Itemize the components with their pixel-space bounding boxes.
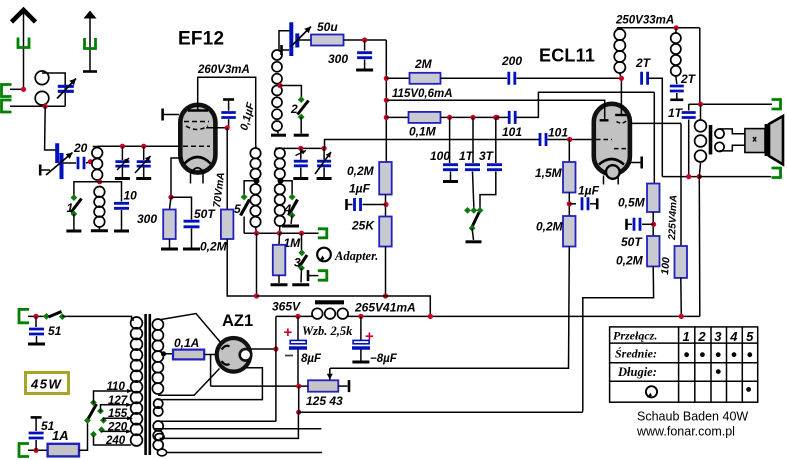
node 265V bbox=[428, 314, 433, 319]
wire T2 bottom to 365V rail bbox=[256, 233, 258, 296]
wire HV bottom to AZ1 anode 2 bbox=[158, 369, 220, 396]
wire 50u to bus bbox=[344, 39, 387, 41]
voltage selector bbox=[84, 417, 91, 424]
svg-text:10: 10 bbox=[124, 189, 138, 203]
wire label box bbox=[257, 296, 431, 316]
svg-text:101: 101 bbox=[502, 125, 522, 139]
node choke 1 bottom bbox=[619, 76, 624, 81]
svg-text:2T: 2T bbox=[635, 56, 652, 70]
trimmer capacitor T1 bbox=[121, 146, 123, 160]
wire HV top to AZ1 anode bbox=[161, 314, 221, 344]
ECL11 triode anode lead bbox=[630, 122, 681, 124]
node 300 cap bbox=[362, 37, 367, 42]
EF12 pins bbox=[190, 174, 192, 184]
trimmer capacitor antenna bbox=[58, 86, 74, 91]
EF12 grid2 dash curve bbox=[186, 126, 208, 130]
filter choke core bar bbox=[315, 300, 344, 304]
svg-text:Przełącz.: Przełącz. bbox=[613, 329, 657, 343]
svg-text:5: 5 bbox=[746, 329, 754, 344]
node bus-2M bbox=[384, 76, 389, 81]
node 25K-365V bbox=[383, 293, 388, 298]
socket (green) speaker bottom bbox=[772, 168, 781, 178]
ECL11 heater circle bbox=[606, 165, 620, 179]
socket (green) antenna A2 bbox=[85, 38, 96, 49]
EF12 grid3 dashes bbox=[184, 121, 209, 123]
svg-text:100: 100 bbox=[430, 149, 450, 163]
node 50T junction bbox=[651, 222, 656, 227]
choke L5 bbox=[617, 28, 618, 30]
svg-text:200: 200 bbox=[501, 54, 522, 68]
wire J2 to coil bottom bbox=[10, 105, 45, 107]
wire mains N bbox=[28, 449, 48, 451]
mains socket (green) N bbox=[19, 444, 29, 457]
terminal bar antenna A2 bbox=[83, 70, 97, 73]
svg-text:225V4mA: 225V4mA bbox=[667, 195, 680, 241]
node trimmer 2 bbox=[141, 144, 146, 149]
wire cap to bus bbox=[298, 386, 300, 412]
svg-text:125 43: 125 43 bbox=[306, 394, 343, 408]
svg-text:Schaub Baden 40W: Schaub Baden 40W bbox=[637, 410, 748, 424]
svg-text:1: 1 bbox=[683, 329, 690, 344]
wire 200 to choke node bbox=[517, 77, 622, 79]
ECL11 triode grid bar bbox=[600, 119, 609, 121]
electrolytic capacitor 8uF-2 bbox=[360, 316, 362, 340]
wire J1 to node bbox=[10, 88, 24, 90]
wire B+ rail bbox=[276, 315, 312, 317]
wire to fuse 0,1A bbox=[164, 353, 174, 355]
socket (green) antenna A1 bbox=[18, 38, 29, 48]
label 45W box bbox=[26, 373, 69, 394]
wire HV top lead bbox=[160, 420, 276, 422]
svg-text:Wzb. 2,5k: Wzb. 2,5k bbox=[302, 324, 353, 338]
trimmer capacitor T2a bbox=[300, 148, 302, 159]
wire 101 up and over bbox=[517, 92, 655, 117]
node rail-pot bbox=[358, 314, 363, 319]
mains socket (green) L bbox=[19, 309, 29, 322]
AZ1 filament strokes bbox=[222, 346, 230, 350]
wire AZ1 filament right bbox=[158, 368, 262, 400]
RF coil L2 lower bbox=[94, 187, 105, 198]
svg-text:Adapter.: Adapter. bbox=[334, 249, 378, 263]
svg-text:1µF: 1µF bbox=[578, 184, 600, 198]
osc coil L4 bbox=[275, 147, 278, 149]
svg-text:2M: 2M bbox=[414, 57, 433, 71]
svg-text:AZ1: AZ1 bbox=[222, 312, 253, 330]
EF12 cathode arc bbox=[185, 157, 211, 164]
svg-text:0,1A: 0,1A bbox=[174, 336, 199, 350]
wire pot left bbox=[211, 385, 308, 387]
node mains L bbox=[33, 314, 38, 319]
resistor 100 (cathode pentode) bbox=[675, 246, 688, 278]
svg-text:EF12: EF12 bbox=[178, 29, 224, 50]
wire 250V to speaker line bbox=[699, 28, 701, 104]
wire mains L bbox=[28, 315, 46, 317]
wire T2 secondary top bbox=[275, 147, 324, 149]
ECL11 cathode arc bbox=[599, 159, 624, 165]
wire 0,2M pentode to bottom rail bbox=[583, 266, 654, 411]
svg-text:20: 20 bbox=[73, 141, 88, 155]
wire screen resistor to 365V rail bbox=[227, 239, 256, 296]
AZ1 anode notch bbox=[240, 349, 252, 361]
node mains N bbox=[34, 448, 39, 453]
antenna coil L1 bbox=[42, 73, 65, 106]
wire 365V column bbox=[275, 316, 277, 421]
wire ground bus bbox=[299, 411, 583, 413]
wire node down to tuning cap bbox=[45, 106, 56, 150]
power transformer 6V winding bbox=[153, 421, 163, 431]
node L4 bottom / 1M top bbox=[279, 226, 281, 233]
power transformer HV secondary bbox=[152, 319, 163, 330]
output transformer secondary bbox=[715, 129, 724, 138]
RF coil L2 upper bbox=[93, 146, 97, 148]
rotor terminal bbox=[280, 45, 283, 55]
svg-text:−8µF: −8µF bbox=[370, 353, 398, 365]
switch tone bbox=[464, 207, 471, 214]
wire screen column down bbox=[226, 128, 228, 210]
svg-text:100: 100 bbox=[659, 257, 672, 276]
socket (green) input J1 bbox=[2, 85, 12, 97]
node 1uF-2 bbox=[568, 193, 570, 217]
node HV center tap bbox=[161, 351, 166, 356]
node L3 tap bbox=[277, 83, 282, 88]
svg-text:Średnie:: Średnie: bbox=[615, 347, 657, 361]
node bus-01M bbox=[384, 115, 389, 120]
node trimmer 1 bbox=[120, 144, 125, 149]
svg-text:2: 2 bbox=[697, 329, 706, 344]
node T2 primary bottom bbox=[256, 227, 257, 233]
node coil tap bbox=[88, 159, 93, 164]
svg-text:115V0,6mA: 115V0,6mA bbox=[392, 88, 453, 100]
osc coil L3 (top) bbox=[279, 31, 291, 50]
jack (green) adapter lower bbox=[307, 270, 310, 281]
ECL11 cathode terminal bbox=[629, 162, 642, 164]
frame terminal of tuning cap bbox=[39, 165, 42, 176]
node screen junction bbox=[225, 125, 230, 130]
svg-text:50T: 50T bbox=[194, 207, 216, 221]
IF transformer T2 primary bbox=[255, 146, 257, 149]
wire 0,2M down to AVC return bbox=[330, 247, 569, 369]
speaker voice coil leads bbox=[720, 129, 747, 134]
trimmer capacitor T2b bbox=[323, 148, 325, 159]
tube EF12 envelope bbox=[180, 105, 215, 173]
svg-text:250V33mA: 250V33mA bbox=[615, 15, 674, 27]
svg-text:2T: 2T bbox=[680, 72, 697, 86]
node EF12 cathode bbox=[168, 195, 173, 200]
EF12 top-cap terminal bbox=[161, 109, 164, 121]
EF12 grid2 lead right bbox=[206, 127, 227, 129]
speaker magnet box bbox=[745, 129, 765, 153]
node 1T bottom bbox=[686, 174, 691, 179]
wire speaker top line bbox=[689, 103, 772, 105]
variable capacitor C-tune (gang section 1) bbox=[57, 143, 61, 179]
wire L3 tap to switch 2 bbox=[280, 86, 301, 99]
power transformer 4V winding bbox=[154, 399, 163, 408]
wire EF12 anode to IF primary bbox=[198, 77, 256, 145]
node cap 3T bbox=[493, 115, 498, 120]
wire triode anode feed 0,5M bbox=[653, 92, 655, 183]
choke L6 bbox=[671, 33, 681, 43]
node OT primary top bbox=[698, 102, 703, 107]
wire trimmer to resistor 50u bbox=[299, 39, 312, 41]
svg-text:260V3mA: 260V3mA bbox=[197, 64, 250, 76]
node antenna input bbox=[21, 87, 26, 92]
node cap 1T bbox=[470, 115, 475, 120]
node rail-100R bbox=[679, 314, 684, 319]
wire 100 to B+ rail bbox=[680, 278, 683, 317]
wire OT bottom row bbox=[662, 176, 699, 178]
socket (green) input J2 bbox=[2, 100, 12, 112]
wire OT bottom to B+ rail bbox=[698, 177, 701, 317]
antenna A1 (outside aerial) bbox=[12, 10, 36, 22]
wire AZ1 cathode to rail bbox=[250, 348, 276, 350]
wire 25K to 365V rail bbox=[385, 247, 387, 297]
ECL11 pentode dash arc bbox=[617, 121, 627, 123]
wire speaker bottom line bbox=[699, 176, 771, 178]
wire band wire from L2 tap bbox=[74, 182, 100, 198]
wire 2T to corner down bbox=[649, 78, 662, 176]
EF12 cathode lead left bbox=[171, 158, 183, 197]
node T2 primary tap bbox=[254, 178, 260, 184]
wire osc grid to ECL11 row bbox=[325, 140, 540, 149]
pickup symbol (gramophone) bbox=[317, 248, 331, 262]
svg-text:3: 3 bbox=[714, 329, 722, 344]
svg-text:45W: 45W bbox=[30, 377, 62, 392]
svg-text:0,2M: 0,2M bbox=[347, 164, 375, 178]
svg-text:4: 4 bbox=[729, 329, 738, 344]
electrolytic capacitor 8uF-1 bbox=[297, 316, 299, 340]
node choke 2 bbox=[674, 25, 679, 30]
node switch 3 column bbox=[299, 231, 304, 236]
output transformer core bbox=[709, 125, 713, 155]
wire fuse to selector bbox=[79, 420, 88, 450]
band table bbox=[610, 327, 758, 402]
svg-text:0,1M: 0,1M bbox=[409, 125, 437, 139]
trimmer capacitor T2 bbox=[143, 146, 145, 160]
ground L2 bbox=[98, 227, 100, 230]
wire heater stub 1 bbox=[155, 428, 322, 430]
ECL11 triode anode row bbox=[614, 148, 628, 150]
tube AZ1 envelope bbox=[217, 338, 251, 372]
power transformer core bbox=[146, 314, 150, 455]
node 8uF-1 bbox=[295, 314, 300, 319]
wire heater line 2 bbox=[160, 412, 299, 438]
wire heater stub 3 bbox=[166, 452, 322, 454]
svg-text:25K: 25K bbox=[351, 219, 375, 233]
node coil bottom bbox=[43, 104, 48, 109]
antenna A2 (frame aerial) bbox=[84, 11, 97, 19]
svg-text:51: 51 bbox=[48, 324, 62, 338]
filter choke Wzb 2,5k bbox=[312, 308, 323, 319]
node L4 tap bbox=[278, 178, 284, 184]
svg-text:50u: 50u bbox=[317, 20, 338, 34]
node bus-100 bbox=[384, 98, 389, 103]
speaker bbox=[765, 124, 769, 156]
ECL11 pins bbox=[603, 176, 605, 185]
svg-text:365V: 365V bbox=[272, 300, 301, 314]
node cap 100 bbox=[447, 115, 452, 120]
node grid line bbox=[322, 146, 327, 151]
svg-text:3T: 3T bbox=[479, 149, 495, 163]
wire bus x=386 bbox=[385, 40, 387, 162]
node 1,5M top bbox=[567, 137, 572, 142]
tube ECL11 envelope bbox=[594, 104, 630, 174]
wire heater volume ref bbox=[210, 355, 212, 387]
node trimmer 3 bbox=[298, 146, 303, 151]
wire row y=100 (triode grid) bbox=[386, 100, 604, 119]
node AZ1 cathode bbox=[273, 346, 278, 351]
trimmer capacitor osc (padder) bbox=[291, 22, 297, 56]
svg-text:ECL11: ECL11 bbox=[539, 46, 595, 66]
power transformer primary bbox=[131, 317, 143, 329]
EF12 heater arc bbox=[192, 168, 204, 173]
wire fuse to AZ1 bbox=[204, 354, 216, 356]
svg-text:www.fonar.com.pl: www.fonar.com.pl bbox=[636, 425, 735, 439]
svg-text:300: 300 bbox=[328, 52, 348, 66]
node cap 101 bbox=[494, 115, 499, 120]
wire pentode grid column bbox=[680, 123, 682, 246]
ECL11 pentode anode bar bbox=[615, 114, 627, 116]
svg-text:0,5M: 0,5M bbox=[618, 196, 646, 210]
svg-text:+: + bbox=[284, 324, 293, 341]
node L2 junction bbox=[97, 179, 102, 184]
socket (green) speaker top bbox=[772, 100, 781, 110]
svg-text:300: 300 bbox=[137, 212, 157, 226]
mains switch bbox=[43, 313, 50, 320]
node OT primary bottom bbox=[697, 174, 702, 179]
svg-text:1,5M: 1,5M bbox=[535, 166, 563, 180]
wire grid line EF12 bbox=[97, 145, 182, 147]
wire 250V rail bbox=[617, 27, 700, 29]
svg-text:1A: 1A bbox=[52, 428, 69, 443]
svg-text:0,2M: 0,2M bbox=[616, 254, 644, 268]
node 1uF junction bbox=[383, 202, 388, 207]
EF12 grid1 dashes bbox=[183, 145, 210, 147]
EF12 anode bar bbox=[188, 109, 208, 112]
node ground bus bbox=[296, 410, 301, 415]
jack (green) adapter upper bbox=[318, 229, 327, 238]
svg-text:101: 101 bbox=[548, 126, 568, 140]
svg-text:0,2M: 0,2M bbox=[200, 240, 228, 254]
svg-text:Długie:: Długie: bbox=[617, 365, 657, 379]
table row gramophone bbox=[646, 386, 657, 397]
wire 1M node to pickup jack bbox=[280, 232, 319, 234]
svg-text:1T: 1T bbox=[668, 106, 684, 120]
svg-text:1µF: 1µF bbox=[349, 182, 371, 196]
node pot-cap bbox=[296, 384, 301, 389]
svg-text:0,2M: 0,2M bbox=[536, 220, 564, 234]
ECL11 triode grid dashes bbox=[596, 139, 612, 141]
svg-text:50T: 50T bbox=[621, 235, 643, 249]
svg-text:8µF: 8µF bbox=[301, 353, 322, 365]
output transformer T3 primary bbox=[700, 104, 702, 120]
svg-text:265V41mA: 265V41mA bbox=[354, 301, 416, 315]
